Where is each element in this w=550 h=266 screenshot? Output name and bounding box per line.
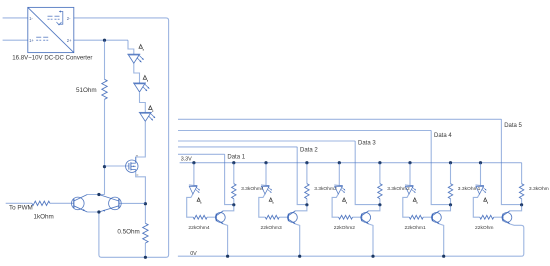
svg-text:22kOhm: 22kOhm xyxy=(475,225,493,231)
svg-text:1+: 1+ xyxy=(29,38,34,43)
svg-text:3.3kOhm4: 3.3kOhm4 xyxy=(241,186,264,192)
svg-text:22kOhm1: 22kOhm1 xyxy=(405,225,426,231)
svg-text:0.5Ohm: 0.5Ohm xyxy=(117,229,139,236)
svg-text:3.3kOhm: 3.3kOhm xyxy=(529,186,549,192)
svg-text:3.3V: 3.3V xyxy=(181,156,192,162)
svg-text:Data 2: Data 2 xyxy=(300,147,318,153)
svg-text:0V: 0V xyxy=(190,251,197,257)
svg-text:Data 5: Data 5 xyxy=(504,123,522,129)
svg-text:Data 1: Data 1 xyxy=(227,155,245,161)
svg-text:16.8V~10V DC-DC Converter: 16.8V~10V DC-DC Converter xyxy=(12,54,92,61)
svg-text:22kOhm3: 22kOhm3 xyxy=(261,225,282,231)
svg-text:To PWM: To PWM xyxy=(9,205,33,212)
svg-text:51Ohm: 51Ohm xyxy=(76,87,97,94)
svg-text:1kOhm: 1kOhm xyxy=(34,214,54,221)
svg-text:22kOhm2: 22kOhm2 xyxy=(334,225,355,231)
svg-text:1-: 1- xyxy=(29,16,33,21)
svg-text:22kOhm4: 22kOhm4 xyxy=(188,225,209,231)
svg-text:3.3kOhm3: 3.3kOhm3 xyxy=(314,186,337,192)
svg-text:2-: 2- xyxy=(67,16,71,21)
svg-text:2+: 2+ xyxy=(67,38,72,43)
svg-text:Data 4: Data 4 xyxy=(434,133,452,139)
svg-text:Data 3: Data 3 xyxy=(358,141,376,147)
